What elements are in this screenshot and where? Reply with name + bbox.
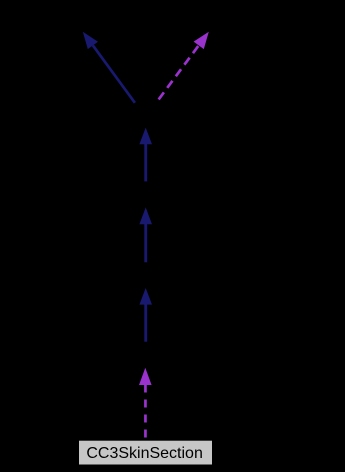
inheritance arrow 3 (node E to node D) : arrowhead: [139, 288, 152, 305]
svg-text:NSObject: NSObject: [112, 186, 181, 203]
usage arrow : dashed shaft: [144, 385, 147, 441]
svg-text:CC3SkinSection: CC3SkinSection: [86, 445, 203, 462]
inheritance arrow 2 : shaft: [144, 224, 147, 263]
node E: fifth-level class (invisible): [86, 342, 206, 368]
inheritance arrow 2 (node D to node C) : arrowhead: [139, 207, 152, 224]
svg-text:NSObject: NSObject: [112, 346, 181, 363]
protocol arrow (dashed darkorchid) node B to top-right node : shaft: [157, 46, 198, 101]
svg-text:CC3Identifiable: CC3Identifiable: [28, 10, 138, 27]
inheritance arrow top-left : arrowhead: [83, 32, 98, 49]
node: top-right base class (invisible black on black): [146, 5, 272, 32]
node CC3SkinSection (current class, grey fill): [79, 440, 213, 465]
usage arrow (dashed darkorchid) CC3SkinSection to node E : arrowhead: [139, 368, 152, 385]
svg-text:NSObject: NSObject: [112, 267, 181, 284]
node D: fourth-level class (invisible): [86, 262, 206, 288]
svg-text:CC3Cacheable: CC3Cacheable: [155, 10, 264, 27]
svg-text:NSObject: NSObject: [112, 106, 181, 123]
protocol arrow top-right : arrowhead: [194, 32, 209, 49]
inheritance arrow 1 (node C to node B) : arrowhead: [139, 128, 152, 145]
inheritance arrow 1 : shaft: [144, 144, 147, 182]
inheritance arrow 3 : shaft: [144, 304, 147, 342]
node C: third-level class (invisible): [86, 181, 206, 207]
node: top-left base class (invisible black on black): [20, 5, 146, 32]
node B: second-level class (invisible): [86, 101, 206, 127]
inheritance arrow (solid midnightblue) node B to top-left node : shaft: [93, 45, 135, 102]
